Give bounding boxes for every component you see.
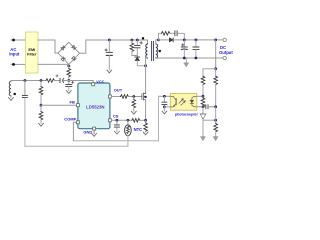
ground (CS cap) — [115, 131, 120, 134]
thermistor NTC — [127, 120, 129, 125]
ground (IC GND) — [92, 130, 97, 136]
node output cap2 — [195, 39, 198, 42]
photocoupler box — [170, 93, 197, 110]
capacitor clamp C — [136, 40, 138, 45]
light arrows (inside) — [179, 99, 185, 106]
wire source to CS — [145, 100, 147, 120]
resistor LED series — [201, 76, 205, 84]
wire opto right top — [197, 95, 203, 97]
ground secondary (output) — [185, 58, 187, 63]
node return cap2 — [195, 57, 198, 60]
node LED cathode — [202, 105, 205, 108]
wire Y-cap bus (bottom) — [25, 145, 128, 147]
resistor FB upper — [40, 81, 42, 87]
resistor current sense — [145, 120, 147, 123]
capacitor output C2 — [195, 40, 197, 47]
svg-text:NTC: NTC — [134, 127, 143, 132]
wire EMI to bridge top — [38, 40, 58, 53]
node bridge bottom — [67, 65, 70, 68]
wire EMI to bridge bottom — [38, 63, 69, 65]
svg-text:LD5523N: LD5523N — [86, 104, 104, 109]
wire AC line bottom — [11, 63, 26, 65]
ground secondary (divider) — [213, 137, 218, 141]
wire COMP bus — [73, 140, 158, 142]
pin OUT — [108, 95, 111, 98]
node source dot — [144, 96, 146, 98]
resistor divider lower — [214, 123, 218, 131]
node divider split — [214, 67, 217, 70]
secondary winding — [156, 44, 158, 58]
node clamp C top — [136, 39, 139, 42]
wire FB to pin — [41, 104, 76, 106]
diode D2 upper-right — [72, 45, 77, 50]
wire to LED series branch — [203, 69, 216, 76]
transformer core — [152, 42, 154, 61]
phototransistor (inside) — [170, 96, 176, 107]
node divider tap — [214, 39, 217, 42]
svg-text:Output: Output — [219, 50, 233, 55]
bridge rectifier — [58, 42, 80, 64]
resistor divider upper — [215, 69, 217, 76]
node VCC line / startup R — [67, 79, 70, 82]
svg-text:EMI: EMI — [28, 48, 35, 52]
wire Y-cap vertical lower to bus — [24, 98, 26, 146]
ground (bulk cap) — [107, 70, 112, 73]
wire opto left top — [159, 95, 171, 97]
svg-text:CS: CS — [113, 114, 119, 119]
terminal AC bottom — [12, 63, 15, 66]
wire AC line top — [11, 39, 26, 41]
resistor FB lower — [40, 105, 42, 111]
capacitor opto CE — [163, 96, 165, 101]
capacitor VCC cap — [68, 81, 70, 85]
diode D1 upper-left — [61, 46, 66, 51]
wire primary bottom to drain — [146, 58, 148, 66]
node opto emitter — [163, 106, 166, 109]
polarity dot primary — [142, 37, 144, 39]
node sense — [144, 119, 147, 122]
pin CS — [108, 119, 111, 122]
node LED anode — [202, 95, 205, 98]
wire bridge right vertex to bus rail — [80, 40, 148, 53]
node CS cap — [116, 119, 119, 122]
ground (FB divider) — [39, 123, 44, 126]
capacitor CS filter — [116, 120, 118, 124]
wire secondary return — [156, 57, 223, 60]
svg-text:VCC: VCC — [96, 80, 104, 84]
node return cap1 — [183, 57, 186, 60]
node drain / clamp — [144, 64, 147, 67]
wire choke bottom — [10, 96, 12, 98]
node gate — [132, 95, 135, 98]
primary winding — [147, 40, 149, 44]
wire TL431 ref — [203, 119, 215, 121]
wire secondary top — [156, 40, 159, 44]
ground (VCC cap) — [66, 91, 71, 94]
wire divider lower — [215, 107, 217, 124]
node divider mid / comp cap — [214, 105, 217, 108]
node Y-cap branch — [24, 79, 27, 82]
diode D4 lower-right — [72, 56, 77, 61]
wire opto right bottom / cathode line — [197, 106, 206, 108]
wire secondary line — [159, 39, 170, 41]
pin FB — [76, 104, 79, 107]
wire opto left bottom — [164, 106, 170, 108]
snubber loop — [159, 33, 162, 40]
resistor CS line series — [132, 119, 140, 123]
ground (gate pulldown) — [131, 111, 136, 114]
capacitor bulk electrolytic — [108, 40, 110, 52]
node clamp R top — [131, 39, 134, 42]
svg-text:OUT: OUT — [114, 88, 123, 93]
terminal DC output + — [223, 38, 226, 41]
node opto collector — [163, 95, 166, 98]
capacitor output electrolytic — [183, 40, 185, 47]
diode clamp D — [136, 55, 138, 58]
wire CS line — [111, 119, 131, 121]
wire bridge bottom down — [68, 64, 70, 68]
ground secondary (TL431) — [201, 137, 206, 141]
svg-text:FB: FB — [70, 99, 75, 104]
resistor LED bleed — [202, 96, 204, 98]
ground (sense R) — [143, 132, 148, 135]
polarity dot (choke) — [14, 93, 16, 95]
wire drain — [145, 66, 147, 93]
resistor startup R (bridge to VCC line) — [67, 69, 71, 77]
pin GND — [93, 127, 96, 130]
node ref — [214, 119, 217, 122]
node FB — [40, 104, 43, 107]
wire Y-cap vertical upper — [24, 81, 26, 95]
capacitor Y-cap — [22, 95, 27, 97]
svg-text:GND: GND — [83, 130, 92, 135]
node snubber left — [157, 39, 160, 42]
inductor earth choke (left) — [9, 81, 11, 95]
transistor Q1 MOSFET — [142, 93, 146, 101]
resistor snubber — [162, 31, 170, 35]
polarity dot secondary — [159, 50, 161, 52]
node NTC top — [127, 119, 130, 122]
wire divider drop — [215, 40, 217, 69]
resistor clamp R — [131, 40, 133, 43]
resistor gate pulldown — [133, 97, 135, 100]
LED (inside) — [190, 96, 197, 107]
svg-text:COMP: COMP — [64, 116, 76, 121]
EMI filter box — [26, 32, 39, 73]
svg-text:Input: Input — [9, 52, 20, 57]
capacitor snubber — [175, 31, 177, 36]
pin COMP — [76, 121, 79, 124]
IC U1 LD5523N — [78, 83, 110, 129]
terminal DC output - — [223, 56, 226, 59]
ground (opto emitter) — [163, 107, 165, 111]
capacitor VCC series (polarized) — [59, 78, 61, 82]
node bulk cap — [108, 39, 111, 42]
shunt regulator TL431 — [202, 107, 204, 114]
resistor gate — [121, 95, 129, 99]
diode secondary rectifier — [169, 38, 173, 42]
node output cap1 — [183, 39, 186, 42]
diode D3 lower-left — [61, 57, 66, 62]
svg-text:Filter: Filter — [27, 53, 37, 57]
svg-text:photocoupler: photocoupler — [175, 112, 199, 116]
wire opto collector to COMP bus — [158, 96, 160, 141]
capacitor compensation — [206, 105, 208, 109]
wire OUT — [111, 96, 120, 98]
ground (choke) — [9, 98, 14, 101]
pin VCC — [92, 83, 95, 86]
terminal AC top — [12, 39, 15, 42]
wire COMP drop — [73, 122, 76, 141]
resistor VCC line R — [46, 79, 54, 83]
wire VCC line — [11, 80, 46, 83]
node FB divider top — [40, 79, 43, 82]
